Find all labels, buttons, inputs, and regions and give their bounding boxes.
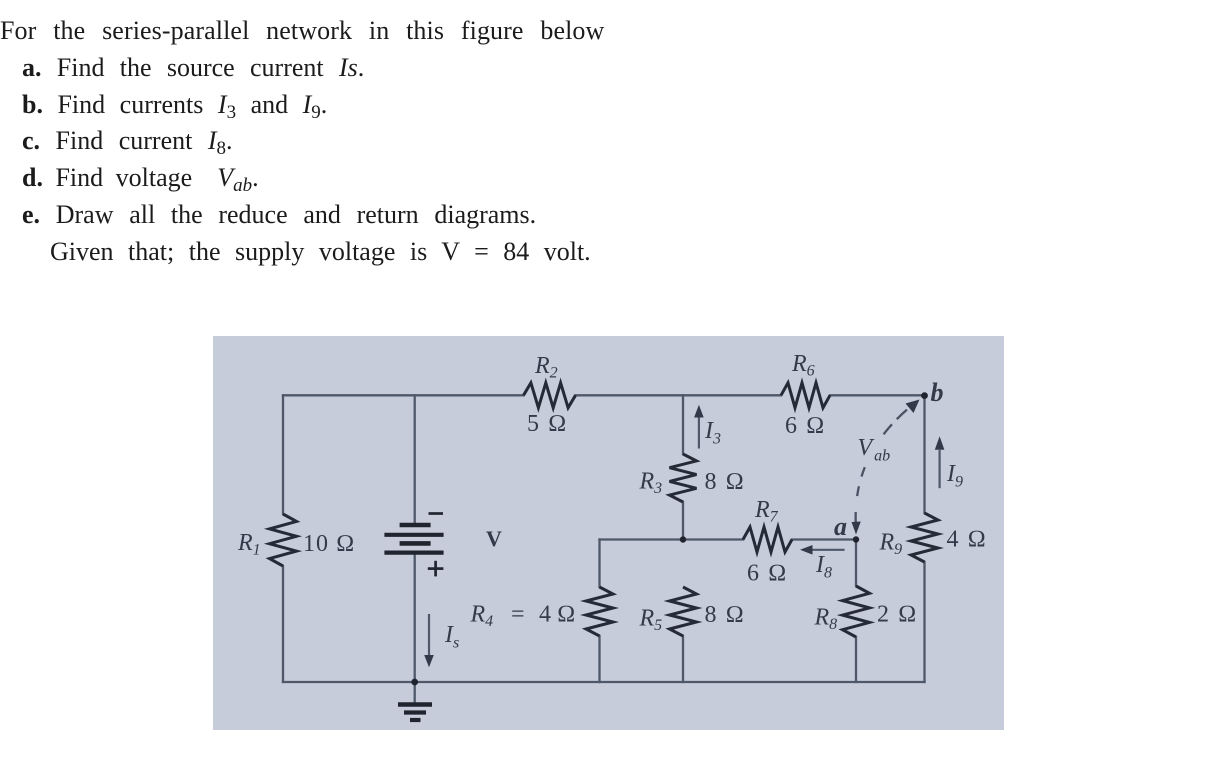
resistor R1 bbox=[270, 514, 297, 566]
wire R8 branch lower bbox=[855, 637, 857, 682]
node junction R3 middle bbox=[680, 536, 686, 542]
battery V plates bbox=[384, 525, 443, 553]
svg-text:R1: R1 bbox=[237, 530, 261, 559]
resistor R8 bbox=[843, 586, 870, 637]
wire bottom bbox=[283, 681, 925, 683]
resistor R9 bbox=[911, 513, 938, 562]
Vab arrowhead at node b bbox=[906, 400, 920, 414]
svg-text:R7: R7 bbox=[754, 497, 779, 526]
svg-text:R2: R2 bbox=[534, 353, 558, 382]
resistor R6 bbox=[781, 383, 830, 408]
svg-text:2 Ω: 2 Ω bbox=[877, 602, 918, 628]
resistor R4 bbox=[586, 587, 613, 636]
svg-text:I8: I8 bbox=[815, 552, 832, 582]
svg-text:R4=4Ω: R4=4Ω bbox=[470, 602, 576, 631]
wire middle horizontal left bbox=[600, 538, 744, 540]
svg-text:I9: I9 bbox=[946, 461, 963, 491]
svg-text:8 Ω: 8 Ω bbox=[705, 602, 746, 628]
wire battery top bbox=[414, 395, 416, 524]
svg-text:R8: R8 bbox=[814, 605, 838, 634]
Vab arrowhead at node a bbox=[852, 522, 861, 535]
ground bbox=[398, 682, 432, 720]
current arrow I9 bbox=[935, 436, 945, 488]
svg-text:Is: Is bbox=[444, 622, 459, 652]
node a junction dot bbox=[853, 536, 859, 542]
svg-text:I3: I3 bbox=[704, 418, 721, 448]
resistor R3 bbox=[670, 454, 697, 502]
wire middle horizontal right bbox=[792, 538, 856, 540]
wire top left segment bbox=[283, 394, 524, 396]
svg-text:V: V bbox=[486, 526, 502, 551]
wire battery bottom bbox=[414, 553, 416, 682]
svg-text:5 Ω: 5 Ω bbox=[527, 411, 568, 437]
resistor R7 bbox=[743, 527, 792, 552]
wire left vertical lower bbox=[282, 566, 284, 682]
svg-text:R9: R9 bbox=[879, 530, 903, 559]
Vab dashed measurement arc bbox=[856, 403, 915, 528]
current arrow I3 bbox=[694, 405, 704, 449]
svg-text:R5: R5 bbox=[639, 606, 663, 635]
resistor R2 bbox=[524, 383, 576, 408]
svg-text:6 Ω: 6 Ω bbox=[785, 413, 826, 439]
svg-text:b: b bbox=[931, 378, 944, 407]
junction dot battery bottom bbox=[411, 679, 418, 686]
wire R8 branch upper bbox=[855, 540, 857, 587]
wire top middle segment bbox=[576, 394, 782, 396]
svg-text:8 Ω: 8 Ω bbox=[705, 469, 746, 495]
wire R3 to middle node bbox=[682, 502, 684, 540]
current arrow Is bbox=[424, 614, 434, 667]
svg-text:a: a bbox=[834, 512, 847, 541]
battery minus sign bbox=[429, 512, 444, 515]
svg-text:Vab: Vab bbox=[858, 435, 891, 465]
node b junction dot bbox=[921, 392, 928, 399]
wire right vertical lower bbox=[923, 562, 925, 682]
wire R5 branch lower bbox=[682, 636, 684, 682]
battery plus sign bbox=[428, 561, 444, 577]
svg-text:6 Ω: 6 Ω bbox=[747, 561, 788, 587]
wire left vertical upper bbox=[282, 395, 284, 514]
wire top right segment bbox=[830, 394, 925, 396]
wire R4 branch lower bbox=[598, 636, 600, 682]
current arrow I8 bbox=[800, 545, 845, 555]
wire right vertical upper bbox=[923, 395, 925, 513]
wire R4 branch upper bbox=[598, 540, 600, 588]
svg-text:R3: R3 bbox=[639, 469, 663, 498]
resistor R5 bbox=[670, 587, 697, 636]
svg-text:4 Ω: 4 Ω bbox=[947, 527, 988, 553]
wire R3 branch upper bbox=[682, 395, 684, 454]
svg-text:R6: R6 bbox=[791, 351, 815, 380]
svg-text:10 Ω: 10 Ω bbox=[303, 531, 355, 557]
